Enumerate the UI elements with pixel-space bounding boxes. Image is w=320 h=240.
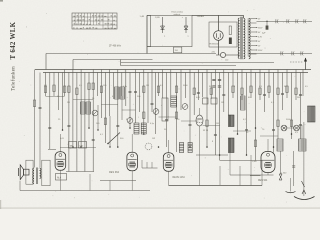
svg-text:1M: 1M — [146, 85, 149, 87]
svg-text:Eisen-Urdox: Eisen-Urdox — [172, 10, 184, 13]
svg-text:1,8Ω: 1,8Ω — [155, 17, 160, 19]
svg-text:1,4Ω: 1,4Ω — [140, 16, 145, 18]
svg-text:RENS 1264: RENS 1264 — [173, 177, 186, 179]
svg-text:AL4: AL4 — [57, 176, 62, 179]
svg-text:350V: 350V — [258, 50, 263, 52]
svg-text:RGN1064: RGN1064 — [210, 44, 221, 46]
svg-text:ca.340: ca.340 — [280, 173, 287, 175]
svg-text:2M: 2M — [67, 102, 70, 104]
svg-text:0,1μ: 0,1μ — [150, 123, 154, 125]
svg-text:Telefunken: Telefunken — [12, 66, 17, 91]
svg-text:widerst.: widerst. — [174, 13, 182, 16]
svg-text:REN 904: REN 904 — [258, 180, 268, 182]
svg-text:W 18: W 18 — [203, 130, 209, 132]
svg-text:4W: 4W — [201, 16, 204, 18]
svg-text:RES 964: RES 964 — [109, 171, 120, 174]
svg-text:350V: 350V — [258, 27, 263, 29]
svg-text:1M: 1M — [216, 123, 219, 125]
svg-text:1W: 1W — [221, 102, 224, 104]
svg-text:ZF 468 kHz: ZF 468 kHz — [109, 45, 122, 47]
svg-text:0,1μ: 0,1μ — [123, 86, 127, 88]
svg-text:2M: 2M — [297, 97, 300, 99]
svg-text:1W: 1W — [152, 138, 155, 140]
svg-text:T 642 WLK: T 642 WLK — [10, 21, 17, 59]
